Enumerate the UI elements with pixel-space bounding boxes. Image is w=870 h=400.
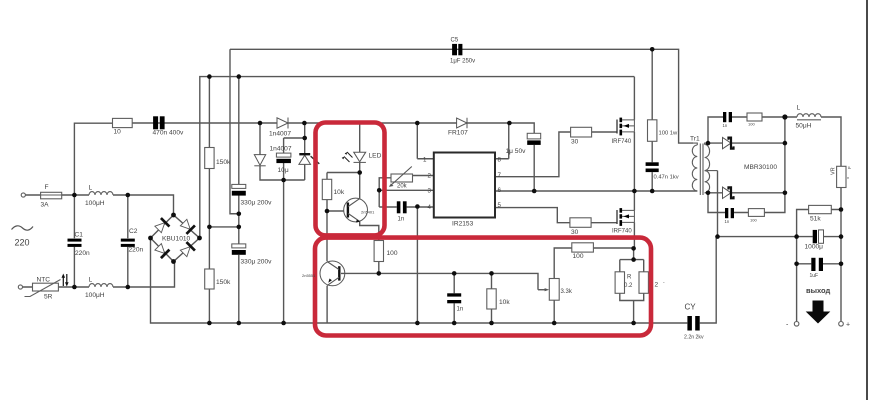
svg-text:2n5401: 2n5401 bbox=[361, 210, 375, 215]
svg-text:.: . bbox=[663, 278, 665, 285]
svg-text:MBR30100: MBR30100 bbox=[744, 164, 777, 171]
svg-text:1n: 1n bbox=[725, 219, 730, 224]
svg-text:6: 6 bbox=[498, 187, 502, 194]
svg-text:1μ 50v: 1μ 50v bbox=[506, 148, 527, 155]
svg-text:470n 400v: 470n 400v bbox=[153, 130, 185, 137]
svg-text:2n5551: 2n5551 bbox=[302, 273, 316, 278]
svg-text:C2: C2 bbox=[129, 228, 138, 235]
svg-text:1n: 1n bbox=[723, 123, 728, 128]
svg-text:220n: 220n bbox=[129, 247, 144, 254]
svg-text:220n: 220n bbox=[75, 250, 90, 257]
svg-text:F: F bbox=[45, 184, 49, 191]
svg-text:330μ 200v: 330μ 200v bbox=[241, 200, 273, 207]
svg-text:5: 5 bbox=[498, 202, 502, 209]
svg-text:150k: 150k bbox=[216, 159, 231, 166]
svg-text:R: R bbox=[627, 275, 632, 281]
svg-text:10: 10 bbox=[114, 129, 122, 136]
svg-text:NTC: NTC bbox=[37, 277, 51, 284]
svg-text:+: + bbox=[846, 322, 850, 329]
svg-text:100: 100 bbox=[573, 253, 584, 260]
svg-text:3: 3 bbox=[428, 188, 432, 195]
svg-text:0.47n 1kv: 0.47n 1kv bbox=[654, 175, 679, 181]
svg-text:KBU1010: KBU1010 bbox=[162, 236, 191, 243]
svg-text:C1: C1 bbox=[75, 232, 84, 239]
svg-text:1n: 1n bbox=[457, 307, 464, 313]
svg-text:100: 100 bbox=[387, 250, 398, 257]
svg-text:F: F bbox=[847, 166, 852, 169]
svg-text:330μ 200v: 330μ 200v bbox=[241, 259, 273, 266]
svg-text:51k: 51k bbox=[810, 216, 821, 223]
svg-text:10k: 10k bbox=[499, 299, 510, 306]
svg-text:1n4007: 1n4007 bbox=[269, 131, 291, 138]
svg-text:2.2n 2kv: 2.2n 2kv bbox=[684, 335, 704, 341]
svg-text:100 1w: 100 1w bbox=[659, 131, 679, 137]
svg-text:0.2: 0.2 bbox=[624, 283, 633, 289]
svg-text:2: 2 bbox=[655, 282, 659, 289]
svg-text:8: 8 bbox=[498, 157, 502, 164]
svg-text:100μH: 100μH bbox=[85, 200, 105, 207]
svg-text:50μH: 50μH bbox=[796, 123, 812, 130]
svg-text:L: L bbox=[89, 185, 93, 192]
svg-text:1n: 1n bbox=[398, 217, 405, 223]
svg-text:1n4007: 1n4007 bbox=[270, 146, 292, 153]
svg-text:10k: 10k bbox=[334, 189, 345, 196]
svg-text:100: 100 bbox=[750, 218, 757, 223]
svg-text:220: 220 bbox=[15, 238, 30, 248]
svg-text:10μ: 10μ bbox=[278, 167, 289, 174]
svg-text:Tr1: Tr1 bbox=[690, 136, 700, 143]
svg-text:1μF 250v: 1μF 250v bbox=[450, 59, 475, 65]
svg-text:7: 7 bbox=[498, 172, 502, 179]
svg-text:3.3k: 3.3k bbox=[561, 289, 573, 295]
svg-text:3A: 3A bbox=[41, 202, 50, 209]
svg-text:4: 4 bbox=[428, 204, 432, 211]
svg-text:C5: C5 bbox=[451, 38, 459, 44]
svg-text:20k: 20k bbox=[397, 184, 408, 190]
svg-text:30: 30 bbox=[571, 229, 579, 236]
svg-text:*: * bbox=[847, 177, 849, 183]
svg-text:-: - bbox=[786, 322, 789, 329]
svg-text:IRF740: IRF740 bbox=[612, 139, 632, 145]
svg-text:1: 1 bbox=[423, 157, 427, 164]
svg-text:5R: 5R bbox=[44, 294, 53, 301]
svg-text:100μH: 100μH bbox=[85, 292, 105, 299]
svg-text:2: 2 bbox=[428, 173, 432, 180]
svg-text:30: 30 bbox=[571, 139, 579, 146]
svg-text:IR2153: IR2153 bbox=[452, 221, 474, 228]
svg-text:IRF740: IRF740 bbox=[612, 229, 632, 235]
svg-text:выход: выход bbox=[806, 286, 830, 295]
svg-text:CY: CY bbox=[685, 303, 697, 312]
svg-text:FR107: FR107 bbox=[448, 130, 468, 137]
svg-text:150k: 150k bbox=[216, 279, 231, 286]
svg-text:VR: VR bbox=[831, 167, 837, 175]
svg-text:LED: LED bbox=[369, 153, 382, 160]
svg-text:1000μ: 1000μ bbox=[805, 244, 824, 251]
svg-text:100: 100 bbox=[748, 122, 755, 127]
svg-text:L: L bbox=[797, 105, 801, 112]
svg-text:L: L bbox=[89, 277, 93, 284]
svg-text:1uF: 1uF bbox=[810, 273, 819, 279]
